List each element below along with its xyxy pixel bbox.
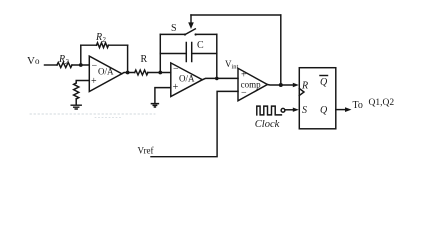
resistor R2 (feedback) [97,43,109,48]
wire feedback right rail down [127,45,129,72]
wire clock to flip-flop S with arrowhead [285,109,295,111]
node junction J1 [79,63,83,67]
svg-text:Q: Q [320,105,328,116]
ground (U1) [71,105,81,109]
op-amp U1 [89,56,122,91]
resistor R [135,70,148,75]
overline on Qbar [320,75,328,77]
wire cap rail left segment [160,53,186,55]
wire feedback left rail up [80,45,82,65]
wire U1 output to R [122,73,135,74]
svg-text:+: + [173,82,179,93]
svg-text:Q: Q [320,77,328,88]
wire U2 plus input to ground [155,88,171,103]
svg-text:R: R [141,54,148,65]
svg-text:Q1,Q2: Q1,Q2 [369,98,395,108]
wire U2 output to comparator [202,78,238,79]
svg-text:+: + [91,76,97,87]
wire U1 plus input to grounding resistor [76,81,89,84]
wire cap rail right segment [192,53,217,55]
wire R to U2 minus input [148,72,171,74]
flip-flop U4 box [299,68,336,129]
svg-text:−: − [241,88,247,99]
resistor (U1 + to ground) [74,83,79,99]
wire resistor to ground [75,99,77,105]
resistor R2 (input) [57,62,72,67]
node Clock label [255,119,280,130]
wire feedback top rail left segment [81,44,97,46]
comparator U3 [238,68,267,101]
flip-flop clock wedge [299,89,304,96]
svg-text:O/A: O/A [179,74,195,84]
svg-text:Vo: Vo [27,55,40,67]
op-amp U2 [171,63,203,97]
switch S [185,29,195,35]
node Vint label [225,59,239,71]
wire comparator output to flip-flop R [267,84,295,87]
wire comparator minus to Vref riser [151,91,238,156]
node Vo label [27,55,40,67]
svg-text:O/A: O/A [98,67,114,77]
node To Q1,Q2 label [353,98,395,111]
svg-text:Clock: Clock [255,119,280,130]
node J2 (U1 output) [126,71,130,75]
svg-text:−: − [92,61,98,72]
arrowhead switch control [188,22,194,29]
node J5 (control junction) [279,83,283,87]
arrowhead into R input [293,83,299,87]
svg-text:S: S [171,23,177,34]
clock terminal circle [281,108,285,112]
wire feedback top rail right segment [109,44,128,46]
wire Vo to R2 input [45,64,58,66]
wire control rail up [280,15,282,85]
wire Q output with arrowhead [336,109,348,111]
clock waveform [257,106,282,115]
svg-text:C: C [197,40,204,51]
wire control top rail [191,14,281,16]
wire switch rail right segment [196,33,217,35]
node Vref label [138,146,154,156]
svg-text:To: To [353,100,363,111]
node J3 [158,71,162,75]
wire R2 to op-amp U1 minus input [72,64,89,66]
wire integrator feedback left rail [159,34,161,72]
svg-text:Vref: Vref [138,146,154,156]
wire switch rail left segment [160,33,185,35]
wire control drop to switch [190,15,192,23]
ground (U2) [151,104,158,107]
capacitor C [186,43,191,62]
svg-text:S: S [302,105,307,116]
artifact dotted line [30,113,155,115]
node J4 (Vint node) [215,77,219,81]
wire integrator feedback right rail [216,34,218,78]
